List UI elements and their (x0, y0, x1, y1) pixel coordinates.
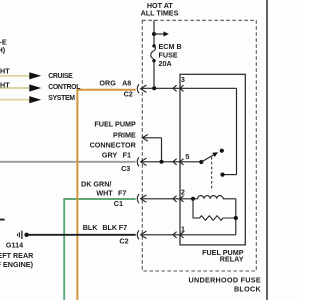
svg-text:PRIME: PRIME (113, 130, 136, 139)
svg-text:WHT: WHT (0, 80, 10, 89)
svg-text:G114: G114 (6, 241, 23, 250)
svg-text:CONTROL: CONTROL (48, 84, 80, 91)
svg-text:F7: F7 (118, 188, 126, 197)
svg-text:GRY: GRY (102, 151, 118, 160)
svg-text:H): H) (0, 45, 6, 54)
svg-text:WHT: WHT (96, 188, 113, 197)
svg-text:C2: C2 (119, 237, 128, 246)
svg-text:OF ENGINE): OF ENGINE) (0, 260, 34, 269)
svg-text:ECM B: ECM B (159, 42, 182, 51)
svg-text:BLK: BLK (102, 223, 118, 232)
svg-text:(LEFT REAR: (LEFT REAR (0, 251, 34, 260)
svg-text:ORG: ORG (99, 79, 116, 88)
svg-text:F1: F1 (123, 151, 131, 160)
svg-text:SYSTEM: SYSTEM (48, 95, 75, 102)
svg-text:ALL TIMES: ALL TIMES (141, 9, 179, 18)
svg-text:1: 1 (181, 224, 185, 233)
svg-text:RELAY: RELAY (220, 254, 244, 263)
svg-text:20A: 20A (159, 59, 172, 68)
svg-text:C3: C3 (121, 164, 130, 173)
svg-text:A8: A8 (122, 79, 131, 88)
svg-text:C2: C2 (124, 90, 133, 99)
svg-text:5: 5 (185, 152, 189, 161)
svg-text:F7: F7 (119, 223, 127, 232)
svg-text:WHT: WHT (0, 66, 10, 75)
svg-text:CRUISE: CRUISE (48, 73, 73, 80)
svg-text:CONNECTOR: CONNECTOR (90, 141, 137, 150)
svg-text:UNDERHOOD FUSE: UNDERHOOD FUSE (189, 276, 262, 285)
svg-text:3: 3 (181, 75, 185, 84)
svg-text:2: 2 (181, 187, 185, 196)
svg-text:BLK: BLK (83, 223, 99, 232)
svg-text:C1: C1 (114, 199, 123, 208)
svg-text:FUEL PUMP: FUEL PUMP (94, 120, 136, 129)
svg-text:BLOCK: BLOCK (234, 285, 262, 294)
svg-text:DK GRN/: DK GRN/ (81, 179, 111, 188)
